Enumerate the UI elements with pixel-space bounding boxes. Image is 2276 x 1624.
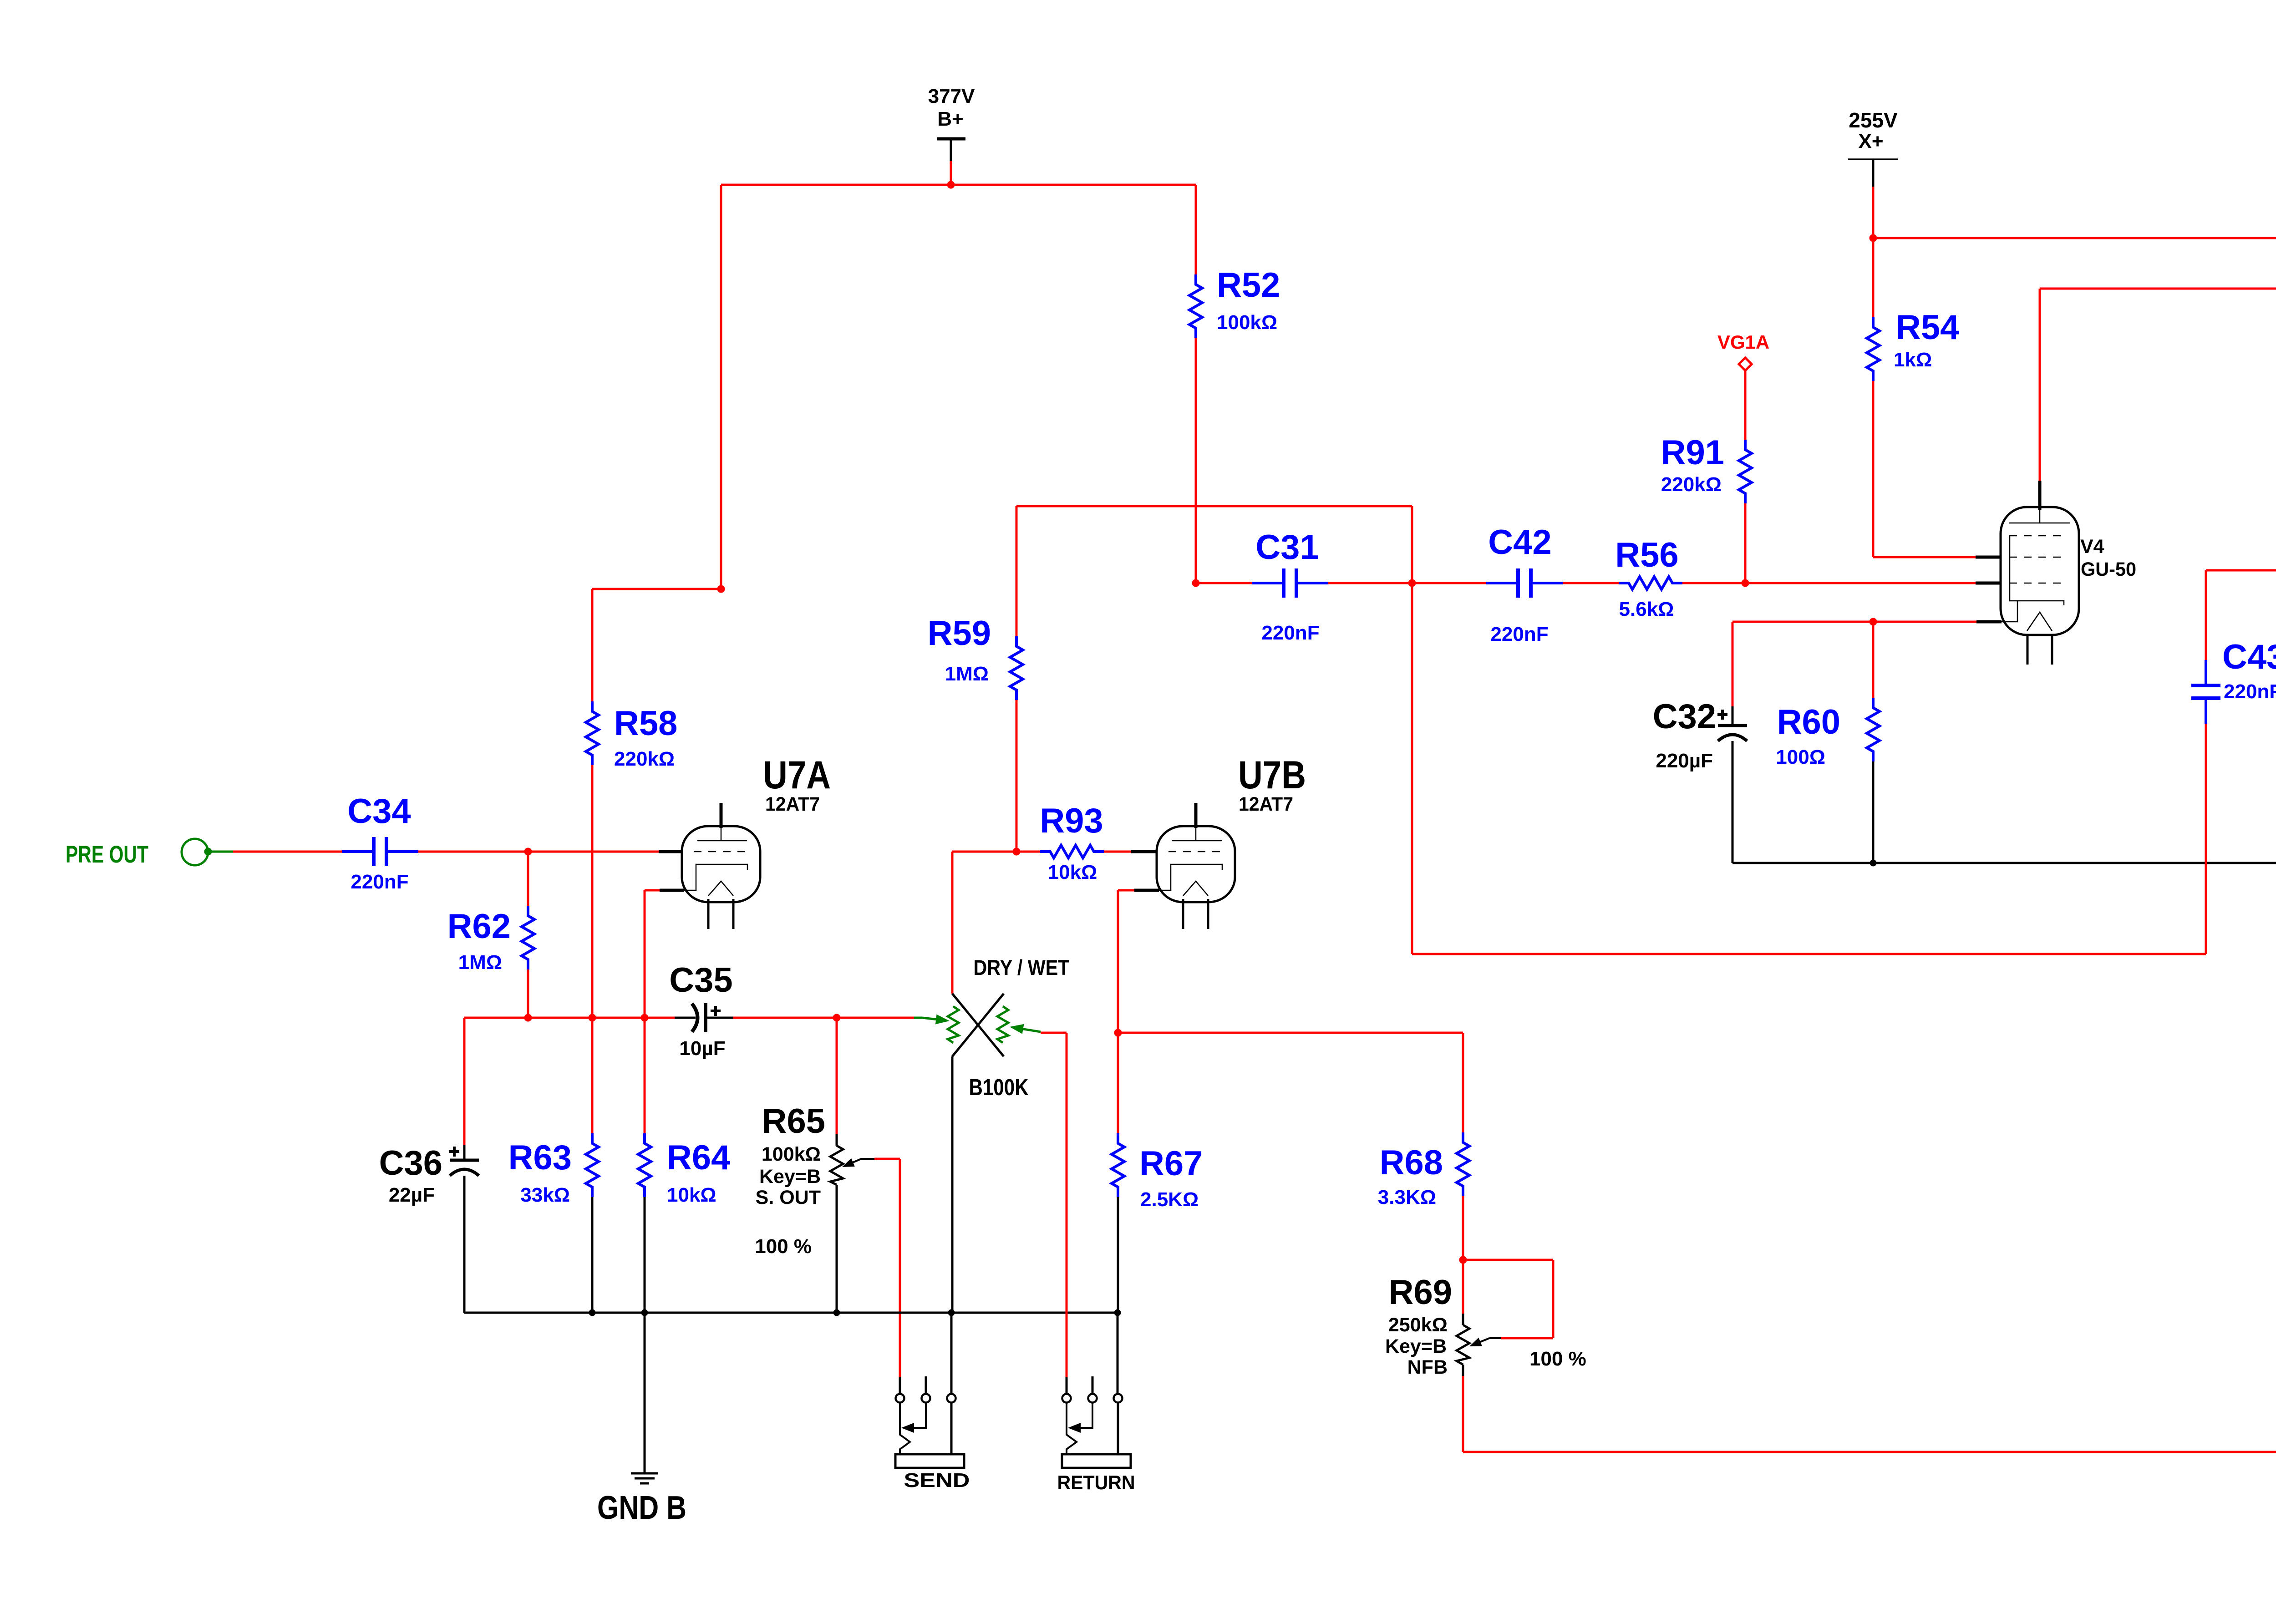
wire R69 top-to-wiper loop <box>1463 1259 1553 1261</box>
resistor R91 220k <box>1744 370 1747 440</box>
svg-text:1kΩ: 1kΩ <box>1894 349 1932 371</box>
resistor R62 1M <box>527 852 529 906</box>
svg-text:R65: R65 <box>762 1102 825 1141</box>
svg-text:R91: R91 <box>1661 433 1724 472</box>
svg-text:12AT7: 12AT7 <box>765 793 820 815</box>
svg-text:220kΩ: 220kΩ <box>614 748 675 770</box>
node X+ rail <box>1870 234 1877 242</box>
svg-text:PRE OUT: PRE OUT <box>66 841 148 868</box>
svg-text:1MΩ: 1MΩ <box>945 663 989 685</box>
svg-text:NFB: NFB <box>1407 1356 1448 1378</box>
svg-text:R69: R69 <box>1389 1273 1452 1312</box>
svg-text:255V: 255V <box>1849 108 1898 132</box>
pin V4 g2 stub <box>1976 556 2002 559</box>
capacitor C34 220nF <box>342 850 374 853</box>
resistor R68 3.3K <box>1457 1132 1469 1196</box>
svg-text:12AT7: 12AT7 <box>1239 793 1293 815</box>
resistor R52 100k <box>1195 185 1197 274</box>
svg-text:10kΩ: 10kΩ <box>1048 861 1097 883</box>
capacitor C32 220uF polarized <box>1732 622 1734 706</box>
svg-text:RETURN: RETURN <box>1057 1472 1135 1494</box>
svg-text:R54: R54 <box>1896 308 1959 347</box>
svg-text:V4: V4 <box>2080 536 2104 558</box>
pin U7A cathode stub <box>660 889 684 892</box>
capacitor C36 22uF polarized <box>463 1018 466 1145</box>
svg-text:U7A: U7A <box>763 753 831 797</box>
potentiometer R69 250k NFB <box>1462 1260 1464 1314</box>
pin U7B plate stub <box>1194 803 1198 828</box>
svg-text:B+: B+ <box>937 108 963 130</box>
svg-text:R52: R52 <box>1217 266 1280 304</box>
potentiometer R65 100k S.OUT <box>836 1018 838 1134</box>
wire cathode node to R68 <box>1118 1032 1463 1034</box>
pin V4 cathode stub <box>1976 620 2002 624</box>
svg-text:C35: C35 <box>669 961 732 1000</box>
svg-text:R62: R62 <box>447 907 511 946</box>
svg-text:C43: C43 <box>2222 638 2276 676</box>
svg-text:220nF: 220nF <box>351 871 408 893</box>
svg-text:250kΩ: 250kΩ <box>1388 1314 1448 1336</box>
wire DRY/WET right wiper <box>1023 1029 1041 1032</box>
svg-text:R67: R67 <box>1139 1144 1203 1183</box>
resistor R63 33k <box>591 1018 594 1133</box>
capacitor C43 220nF <box>2205 660 2207 685</box>
svg-text:S. OUT: S. OUT <box>756 1187 821 1208</box>
pin V4 g1 stub <box>1976 582 2002 585</box>
svg-text:220nF: 220nF <box>2224 680 2276 703</box>
node R91 / V4 grid <box>1742 579 1749 587</box>
wire R58 top branch <box>592 588 721 590</box>
resistor R54 1k <box>1872 238 1875 317</box>
resistor R59 1M <box>1016 506 1018 636</box>
pin V4 plate stub <box>2038 481 2042 510</box>
svg-text:GND B: GND B <box>597 1490 686 1526</box>
svg-text:R56: R56 <box>1615 536 1678 574</box>
tube U7A 12AT7 <box>682 826 760 902</box>
capacitor C31 220nF <box>1196 582 1252 584</box>
svg-text:X+: X+ <box>1858 130 1883 152</box>
svg-text:220nF: 220nF <box>1261 622 1319 644</box>
svg-text:C42: C42 <box>1488 523 1551 562</box>
wire U7A cathode down <box>645 889 660 892</box>
tube U7B 12AT7 <box>1157 826 1235 902</box>
resistor R93 10k <box>1016 851 1040 853</box>
svg-text:220nF: 220nF <box>1490 623 1548 645</box>
svg-text:R64: R64 <box>667 1138 730 1177</box>
resistor R60 100 <box>1872 622 1875 698</box>
jack RETURN <box>1066 1377 1068 1394</box>
svg-text:Key=B: Key=B <box>759 1166 821 1188</box>
wire DRY/WET left wiper <box>914 1017 922 1019</box>
svg-text:2.5KΩ: 2.5KΩ <box>1140 1188 1199 1211</box>
svg-text:33kΩ: 33kΩ <box>520 1184 570 1206</box>
wire DRY/WET bottom to bus <box>951 1056 954 1313</box>
pin U7B grid stub <box>1131 850 1157 853</box>
wire SEND sleeve to bus <box>950 1313 953 1394</box>
svg-text:R93: R93 <box>1040 802 1103 840</box>
wire C31 node down to C43 <box>1411 583 1413 954</box>
svg-text:100kΩ: 100kΩ <box>762 1143 821 1165</box>
svg-text:377V: 377V <box>928 85 975 107</box>
capacitor C42 220nF <box>1412 582 1486 584</box>
wire DRY/WET right to RETURN tip <box>1066 1033 1068 1377</box>
wire to DRY/WET pot top <box>952 851 1016 853</box>
svg-text:10kΩ: 10kΩ <box>667 1184 716 1206</box>
svg-text:VG1A: VG1A <box>1717 331 1769 353</box>
wire B+ rail to U7A plate and R52 <box>721 184 1196 186</box>
node U7B plate / C31 <box>1192 579 1200 587</box>
node R93 junction <box>1013 848 1021 856</box>
wire R59 top to C31-C42 node <box>1016 505 1412 507</box>
svg-text:C32: C32 <box>1653 697 1716 736</box>
capacitor C35 10uF polarized <box>675 1017 696 1019</box>
svg-text:SEND: SEND <box>904 1469 970 1492</box>
svg-text:C31: C31 <box>1255 528 1319 567</box>
wire C34 to U7A grid <box>418 851 659 853</box>
wire PRE OUT to C34 <box>233 851 342 853</box>
svg-text:10µF: 10µF <box>679 1037 725 1060</box>
svg-text:R58: R58 <box>614 704 677 743</box>
node C31-C42 <box>1408 579 1416 587</box>
svg-text:B100K: B100K <box>969 1074 1029 1100</box>
wire V4 cathode line <box>1732 621 1976 623</box>
wire X+ rail to R55 <box>1873 237 2276 239</box>
svg-text:R60: R60 <box>1777 703 1840 741</box>
svg-text:R59: R59 <box>928 614 991 653</box>
ground GND B left <box>644 1313 646 1473</box>
wire ground bus A <box>1732 862 2276 864</box>
svg-text:100 %: 100 % <box>1529 1348 1586 1370</box>
svg-text:22µF: 22µF <box>389 1184 435 1206</box>
wire R54 to V4 g2 <box>1873 556 1976 558</box>
pin U7A plate stub <box>720 803 723 828</box>
svg-text:R68: R68 <box>1380 1143 1443 1182</box>
svg-text:100 %: 100 % <box>755 1235 812 1258</box>
svg-text:220µF: 220µF <box>1656 750 1713 772</box>
wire V4 plate to OPT <box>2039 289 2041 481</box>
resistor R67 2.5K <box>1117 1033 1119 1133</box>
resistor R56 5.6k <box>1619 577 1682 589</box>
resistor R58 220k <box>586 701 599 765</box>
svg-text:5.6kΩ: 5.6kΩ <box>1619 598 1674 620</box>
svg-text:DRY / WET: DRY / WET <box>974 955 1070 979</box>
svg-text:Key=B: Key=B <box>1385 1335 1447 1357</box>
wire C35 bus <box>464 1017 675 1019</box>
resistor R64 10k <box>644 1018 646 1133</box>
svg-text:220kΩ: 220kΩ <box>1661 473 1722 496</box>
svg-text:U7B: U7B <box>1238 753 1306 797</box>
svg-text:R63: R63 <box>508 1138 572 1177</box>
svg-text:3.3KΩ: 3.3KΩ <box>1378 1186 1436 1208</box>
tube V4 GU-50 <box>2001 507 2079 635</box>
node U7A plate junction <box>717 585 725 593</box>
wire RETURN sleeve to bus <box>1117 1313 1119 1394</box>
wire R58 bottom to C35 bus <box>591 765 594 1018</box>
wire R65 wiper to SEND tip <box>899 1159 901 1377</box>
svg-text:C34: C34 <box>347 792 411 831</box>
jack SEND <box>899 1377 901 1394</box>
svg-text:1MΩ: 1MΩ <box>458 951 502 974</box>
svg-text:100Ω: 100Ω <box>1776 746 1825 768</box>
svg-text:C36: C36 <box>379 1144 442 1182</box>
pin U7A grid stub <box>659 850 684 853</box>
pin U7B cathode stub <box>1134 889 1159 892</box>
svg-text:100kΩ: 100kΩ <box>1217 311 1277 334</box>
svg-text:GU-50: GU-50 <box>2081 558 2136 580</box>
wire ground bus B <box>464 1312 1118 1314</box>
wire U7B cathode down <box>1118 889 1134 892</box>
resistor R57 5.6k <box>2206 569 2276 572</box>
